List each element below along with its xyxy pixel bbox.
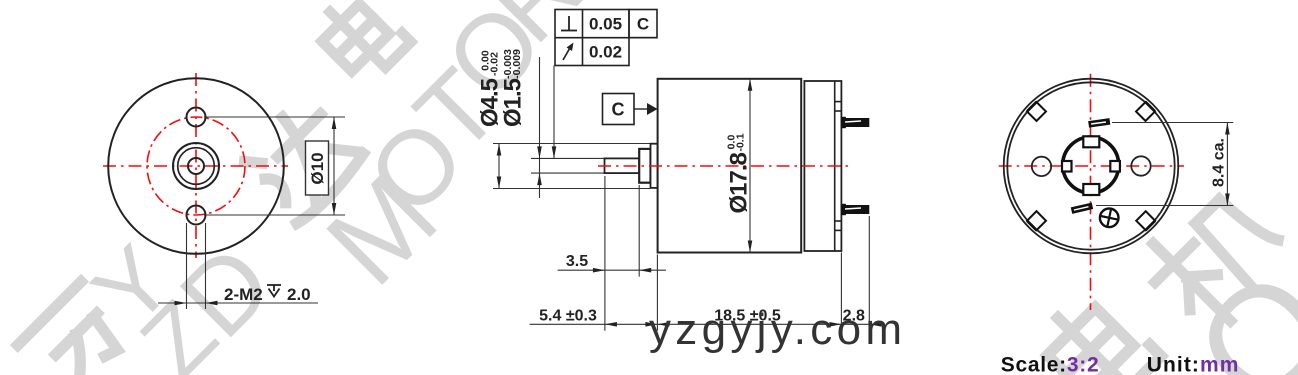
right view: right hole [1131, 156, 1150, 175]
arrows at body left [645, 322, 657, 327]
datum triangle [647, 103, 658, 115]
hub notch right [1110, 161, 1120, 172]
Ø1.5 bottom extension line [531, 172, 605, 174]
left view: outer circle [108, 78, 284, 254]
Ø17.8 arrow up [748, 79, 753, 91]
top terminal pin [841, 117, 869, 128]
dim Ø10 arrow down [332, 203, 337, 215]
svg-text:Ø1.5: Ø1.5 [500, 78, 527, 127]
svg-text:5.4 ±0.3: 5.4 ±0.3 [539, 308, 597, 325]
arrow at 605 left [605, 322, 617, 327]
dim 2-M2 right arrow [206, 301, 218, 306]
right view: left hole [1032, 157, 1051, 176]
datum C box [603, 94, 635, 125]
dim 3.5 left arrow [593, 268, 605, 273]
right view: hub circle [1063, 137, 1119, 193]
svg-text:Ø17.8: Ø17.8 [726, 152, 753, 213]
watermark ji (机) [1135, 179, 1295, 339]
Ø4.5 arrow up [497, 144, 502, 156]
arrow at cap right [829, 322, 841, 327]
Ø1.5 top extension line [531, 157, 605, 159]
dim Ø10 bottom leader [204, 214, 345, 216]
cap tab divider 4 [835, 229, 842, 231]
dim 8.4 bottom leader [1096, 205, 1233, 207]
dim 3.5 right arrow [639, 268, 651, 273]
svg-text:2.0: 2.0 [287, 285, 311, 304]
FCF frame [555, 10, 657, 66]
dim 8.4 top leader [1112, 122, 1233, 124]
end cap [804, 81, 841, 251]
svg-text:-0.009: -0.009 [511, 49, 523, 79]
right view: outer circle [1004, 79, 1179, 254]
dim 2-M2 dimension line [158, 302, 318, 304]
ext line collar [638, 185, 640, 277]
left view: red bolt circle [147, 117, 245, 215]
left view: red horizontal centerline [103, 165, 288, 167]
left view: shaft circle [188, 158, 204, 174]
watermark da (达) [237, 95, 368, 226]
shaft Ø1.5 [605, 158, 640, 173]
hub notch left [1062, 161, 1072, 172]
dim Ø10 top leader [204, 116, 345, 118]
Ø1.5 dimension line [539, 57, 541, 198]
right view: red horizontal centerline [999, 165, 1184, 167]
commutator slot bottom [1071, 203, 1093, 214]
svg-text:C: C [637, 15, 649, 34]
Ø1.5 arrow down [537, 146, 542, 158]
watermark wan (万) [18, 282, 137, 375]
svg-text:2-M2: 2-M2 [224, 285, 263, 304]
svg-text:Scale:3:2: Scale:3:2 [1001, 354, 1100, 375]
screw head circle [1100, 209, 1119, 228]
hub notch bottom [1083, 184, 1099, 195]
dim Ø10 dimension line [333, 117, 335, 215]
right view: inner circle [1007, 82, 1174, 249]
svg-text:8.4 ca.: 8.4 ca. [1211, 138, 1228, 187]
Ø4.5 arrow down [497, 177, 502, 189]
watermark dian top (电) [311, 0, 411, 86]
Ø17.8 dimension line [749, 79, 751, 253]
dim 8.4 dimension line [1226, 123, 1228, 206]
FCF leader to shaft [553, 66, 555, 159]
watermark dian right (电) [1034, 286, 1161, 375]
ext line cap right [840, 253, 842, 333]
motor body [658, 79, 802, 253]
left view: bottom M2 hole [187, 206, 206, 225]
left view: boss outer circle [173, 143, 219, 189]
cap tab divider 3 [835, 220, 842, 222]
ext line body left [656, 255, 658, 331]
svg-text:-0.1: -0.1 [735, 133, 747, 151]
svg-text:Unit:mm: Unit:mm [1147, 354, 1240, 375]
screw head cross [1098, 207, 1120, 229]
corner tab bottom-left [1027, 211, 1046, 230]
svg-text:C: C [612, 100, 625, 120]
Ø17.8 arrow down [748, 241, 753, 253]
corner tab bottom-right [1136, 211, 1155, 230]
shaft boss Ø4.5 [651, 144, 658, 188]
cap tab divider 1 [835, 101, 842, 103]
Ø4.5 top extension line [493, 143, 650, 145]
svg-text:0.02: 0.02 [589, 43, 622, 62]
Ø4.5 bottom extension line [493, 188, 650, 190]
datum leader line [634, 108, 649, 110]
corner tab bold edges [1027, 102, 1155, 231]
Ø1.5 arrow up [537, 173, 542, 185]
dim 8.4 arrow down [1225, 194, 1230, 206]
arrow at pin tip [869, 322, 881, 327]
dim 3.5 line [558, 269, 666, 271]
corner tab top-left [1027, 102, 1046, 121]
svg-text:0.05: 0.05 [589, 15, 622, 34]
svg-text:3.5: 3.5 [566, 253, 588, 270]
ext line shaft tip [604, 176, 606, 331]
dim 2-M2 right extension line [205, 223, 207, 309]
left view: boss middle circle [178, 148, 215, 185]
dim 8.4 arrow up [1225, 123, 1230, 135]
FCF runout symbol [563, 47, 571, 60]
bottom dimension line [530, 323, 880, 325]
svg-text:yzgyjy.com: yzgyjy.com [649, 305, 906, 354]
dim 2-M2 left arrow [175, 301, 187, 306]
svg-text:Ø10: Ø10 [308, 152, 327, 184]
commutator slot top [1088, 118, 1110, 128]
end cap inner divider [834, 81, 836, 251]
cap tab divider 2 [835, 110, 842, 112]
dim Ø10 arrow up [332, 117, 337, 129]
dim Ø10 label box [306, 141, 329, 195]
left view: top M2 hole [187, 108, 206, 127]
hub notch top [1083, 136, 1099, 147]
shaft collar [639, 149, 650, 183]
depth symbol [267, 285, 281, 297]
bottom terminal pin [841, 204, 869, 215]
right view: red vertical centerline [1090, 74, 1092, 310]
dim 2-M2 left extension line [186, 223, 188, 309]
ext line pin tip [868, 216, 870, 331]
corner tab top-right [1136, 102, 1155, 121]
FCF perpendicularity symbol [561, 16, 577, 31]
Ø4.5 dimension line [498, 144, 500, 189]
middle view: red centerline [598, 165, 848, 167]
FCF leader arrow [552, 146, 557, 158]
svg-text:-0.02: -0.02 [489, 52, 501, 76]
left view: red vertical centerline [195, 73, 197, 258]
